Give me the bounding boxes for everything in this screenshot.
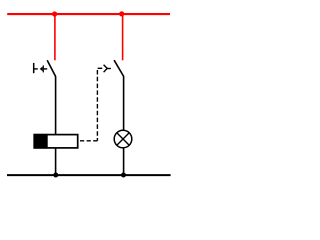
node junction right on bottom bus: [121, 173, 126, 178]
relay contact K1 NO blade: [114, 60, 124, 76]
wire lamp to bottom bus: [123, 148, 125, 175]
node junction left on bottom bus: [53, 173, 58, 178]
indicator lamp H1: [114, 130, 132, 148]
top supply bus (+24V): [7, 13, 170, 15]
mechanical linkage dashed line top stub to arrow: [98, 67, 103, 69]
wire left branch to coil and bottom bus: [55, 76, 57, 175]
node junction right on top bus: [119, 11, 124, 16]
wire right branch switch to lamp: [123, 76, 125, 130]
relay coil K1: [34, 134, 78, 149]
actuator line to contact blade: [107, 68, 111, 70]
node junction left on top bus: [52, 11, 57, 16]
bottom return bus (0V): [7, 174, 171, 176]
wire red drop right branch: [122, 14, 124, 60]
mechanical linkage dashed line horizontal from coil: [78, 140, 97, 142]
actuation arrow on relay contact: [104, 65, 108, 73]
switch S1 manual detent pushbutton NO contact: [34, 60, 56, 76]
wire red drop left branch: [54, 14, 56, 60]
mechanical linkage dashed line vertical riser: [96, 70, 98, 141]
